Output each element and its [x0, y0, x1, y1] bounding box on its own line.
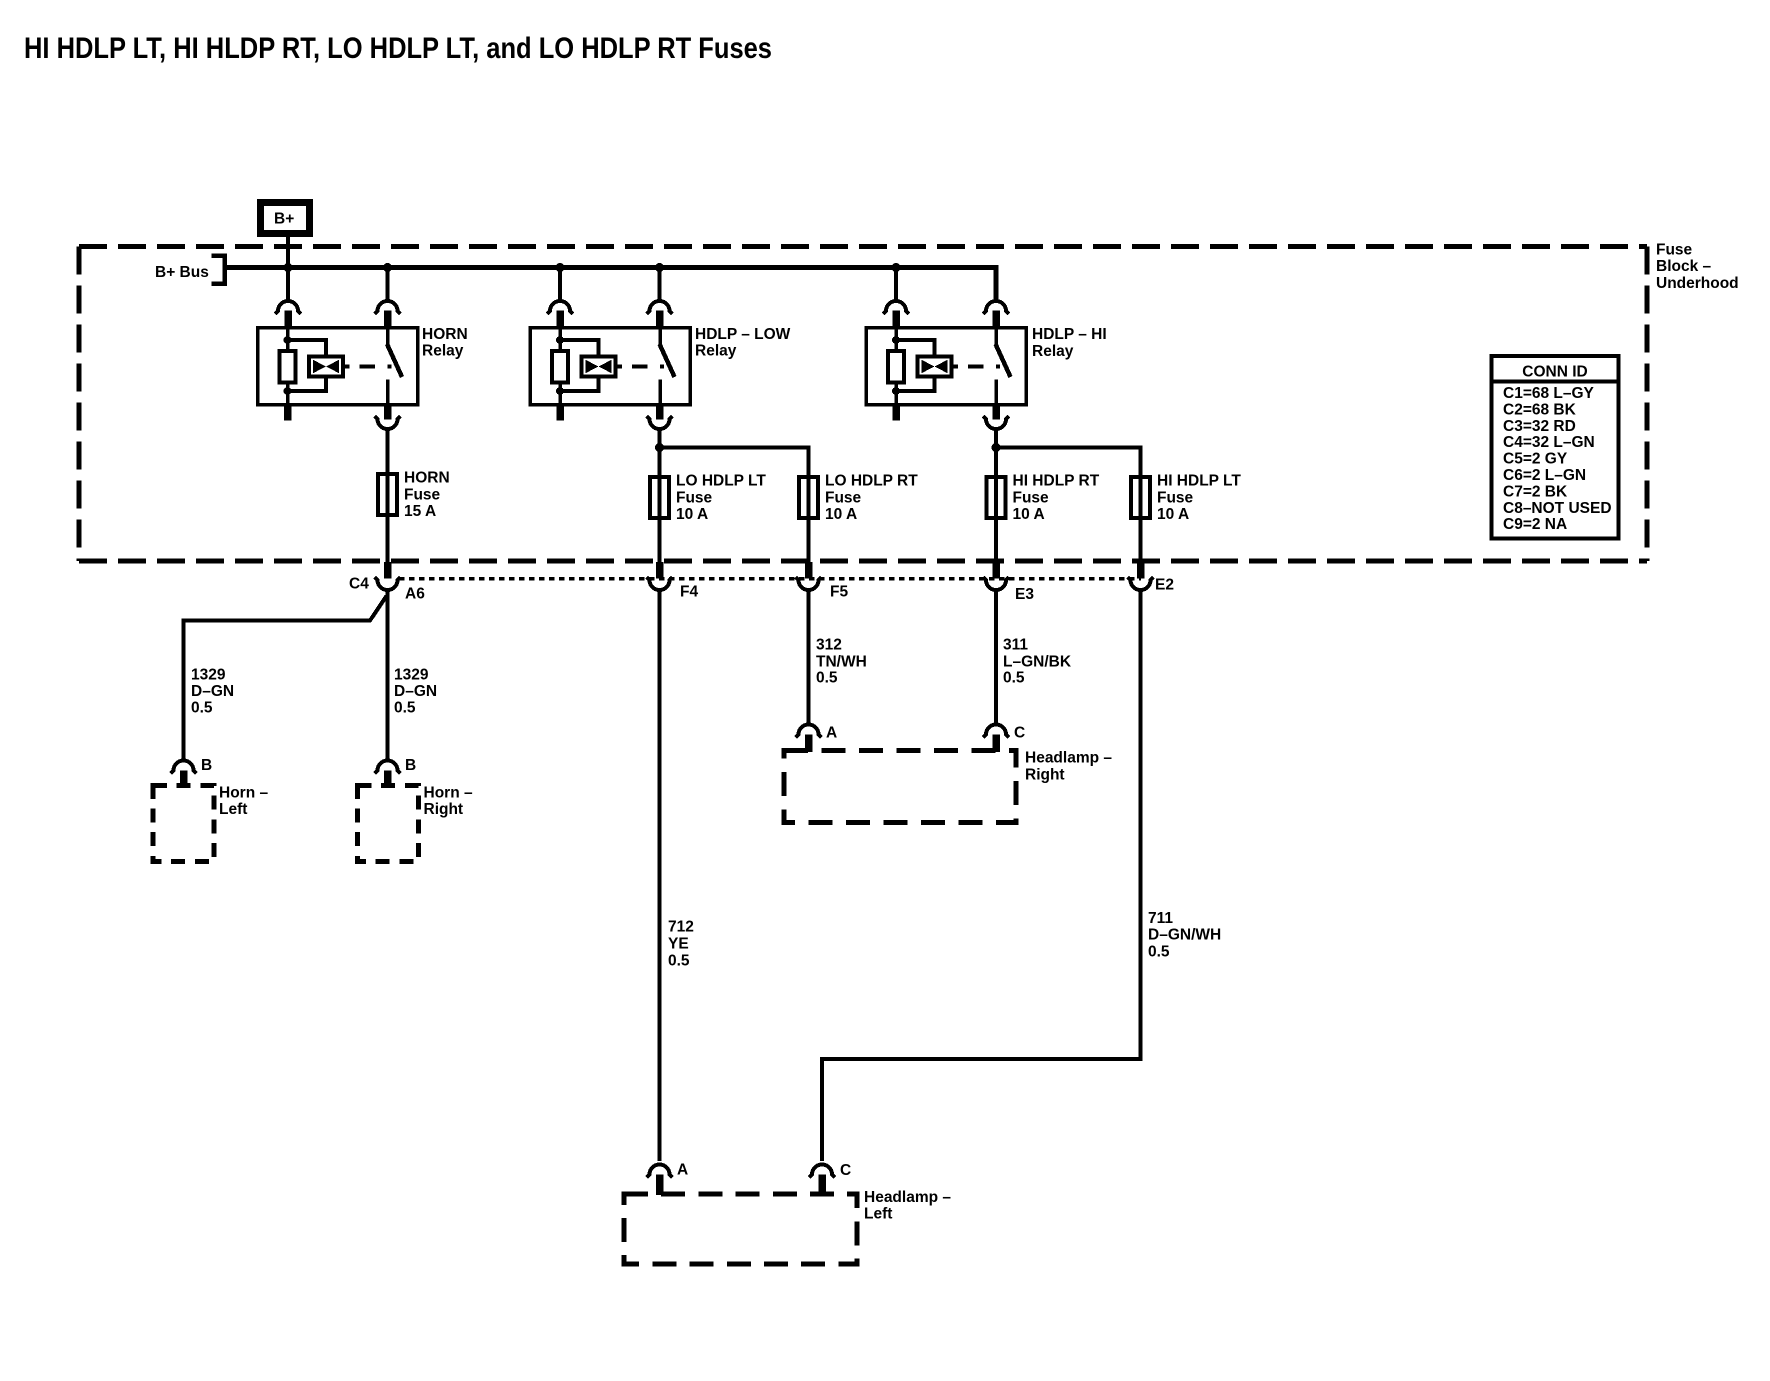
- svg-text:Headlamp –: Headlamp –: [864, 1189, 951, 1206]
- svg-text:Horn –: Horn –: [219, 785, 268, 802]
- svg-text:HORN: HORN: [404, 470, 450, 487]
- HDLP-LOW relay coil wire: [558, 326, 562, 352]
- fuse block underhood dashed border: [79, 244, 1647, 249]
- svg-text:C3=32 RD: C3=32 RD: [1503, 418, 1576, 435]
- svg-text:C1=68 L–GY: C1=68 L–GY: [1503, 385, 1595, 402]
- svg-text:Fuse: Fuse: [825, 489, 862, 506]
- HDLP-HI relay switch: [994, 327, 998, 346]
- svg-text:C5=2 GY: C5=2 GY: [1503, 451, 1568, 468]
- connector terminal arc x=387.5: [375, 301, 401, 314]
- svg-text:10 A: 10 A: [676, 506, 708, 523]
- wire branch to HI HDLP LT fuse: [996, 448, 1141, 477]
- wire E3 311 L-GN/BK to headlamp right C: [994, 591, 998, 725]
- HDLP-LOW relay junction dot coil bottom: [556, 387, 564, 395]
- junction bus x=560: [556, 263, 565, 272]
- svg-text:0.5: 0.5: [668, 953, 690, 970]
- wire C4 to horn right: [386, 591, 390, 761]
- HDLP-LOW relay junction dot coil top: [556, 336, 564, 344]
- svg-text:C4: C4: [349, 576, 369, 593]
- svg-text:0.5: 0.5: [816, 670, 838, 687]
- svg-text:B+ Bus: B+ Bus: [155, 264, 209, 281]
- svg-text:YE: YE: [668, 936, 689, 953]
- terminal pin x=288: [284, 311, 292, 330]
- connector cup F5: [796, 577, 822, 590]
- svg-text:Fuse: Fuse: [1013, 489, 1050, 506]
- HORN relay coil symbol (X box): [309, 357, 343, 377]
- HDLP-LOW relay coil loop wire: [560, 340, 599, 357]
- HDLP-HI relay junction dot coil top: [892, 336, 900, 344]
- wire fuse to block edge x=996: [994, 521, 998, 564]
- svg-text:Fuse: Fuse: [1157, 489, 1194, 506]
- svg-text:A: A: [826, 725, 837, 742]
- svg-text:C6=2 L–GN: C6=2 L–GN: [1503, 467, 1586, 484]
- junction hi branch: [992, 443, 1001, 452]
- svg-text:HI HDLP RT: HI HDLP RT: [1013, 473, 1100, 490]
- HDLP-LOW relay coil resistor: [552, 351, 568, 382]
- connector terminal arc x=288: [275, 301, 301, 314]
- junction bus x=387.5: [383, 263, 392, 272]
- svg-text:0.5: 0.5: [1148, 944, 1170, 961]
- HORN relay junction dot coil bottom: [284, 387, 292, 395]
- terminal pin x=896: [892, 311, 900, 330]
- terminal pin x=996: [992, 311, 1000, 330]
- svg-text:A: A: [677, 1162, 688, 1179]
- terminal pin through block edge x=996: [992, 562, 1000, 579]
- connector cup F4: [647, 577, 673, 590]
- connector terminal arc x=659.5: [647, 301, 673, 314]
- fuse HORN 15A symbol: [378, 474, 397, 515]
- HDLP-LOW relay switch: [658, 327, 662, 346]
- svg-text:10 A: 10 A: [825, 506, 857, 523]
- terminal pin x=560: [556, 311, 564, 330]
- svg-text:C8–NOT USED: C8–NOT USED: [1503, 500, 1612, 517]
- svg-text:0.5: 0.5: [191, 700, 213, 717]
- HORN relay junction dot coil top: [284, 336, 292, 344]
- Horn - Right dashed box: [358, 786, 419, 862]
- fuse LO HDLP LT 10A symbol: [650, 477, 669, 518]
- svg-text:B+: B+: [274, 211, 294, 228]
- B+ bus wire: [227, 268, 997, 302]
- svg-text:Block –: Block –: [1656, 258, 1712, 275]
- wire bus tap horn switch: [386, 268, 390, 302]
- svg-text:E3: E3: [1015, 586, 1034, 603]
- svg-text:B: B: [201, 757, 212, 774]
- wire E2 711 D-GN/WH to headlamp left C: [822, 591, 1141, 1161]
- connector cup A6: [375, 577, 401, 590]
- svg-text:CONN ID: CONN ID: [1522, 364, 1587, 381]
- Headlamp - Right dashed box: [784, 751, 1016, 823]
- svg-text:Left: Left: [864, 1206, 892, 1223]
- wire hi relay to HI HDLP RT fuse: [994, 430, 998, 476]
- svg-text:TN/WH: TN/WH: [816, 654, 867, 671]
- headlamp left connector C: [809, 1165, 835, 1178]
- headlamp left connector A: [647, 1165, 673, 1178]
- fuse HI HDLP LT 10A symbol: [1131, 477, 1150, 518]
- junction bus x=288: [284, 263, 293, 272]
- Headlamp - Left dashed box: [624, 1194, 857, 1264]
- junction bus x=896: [892, 263, 901, 272]
- svg-text:D–GN/WH: D–GN/WH: [1148, 927, 1221, 944]
- HDLP-HI relay coil wire: [894, 326, 898, 352]
- wire B+ to bus: [286, 235, 290, 301]
- HDLP-LOW relay coil symbol (X box): [582, 357, 616, 377]
- relay coil ground stub x=560: [556, 404, 564, 421]
- svg-text:B: B: [405, 757, 416, 774]
- Horn - Left dashed box: [153, 786, 214, 862]
- svg-text:Relay: Relay: [422, 343, 464, 360]
- svg-text:Horn –: Horn –: [424, 785, 473, 802]
- HDLP-HI relay coil loop wire: [896, 340, 935, 357]
- wire fuse to block edge x=1140.5: [1139, 521, 1143, 564]
- fuse HI HDLP RT 10A symbol: [987, 477, 1006, 518]
- connector terminal arc x=896: [883, 301, 909, 314]
- connector terminal arc x=560: [547, 301, 573, 314]
- headlamp right connector C: [983, 725, 1009, 738]
- connector interface dotted line: [399, 577, 1141, 581]
- svg-text:HI HDLP LT: HI HDLP LT: [1157, 473, 1241, 490]
- relay switch output pin x=387.5: [384, 404, 392, 420]
- fuse LO HDLP RT 10A symbol: [799, 477, 818, 518]
- B+ power symbol: [261, 203, 310, 234]
- HORN relay coil resistor: [280, 351, 296, 382]
- wire branch to LO HDLP RT fuse: [660, 448, 809, 477]
- svg-text:C: C: [1014, 725, 1025, 742]
- HDLP-LOW relay box: [530, 328, 690, 405]
- svg-text:1329: 1329: [394, 667, 429, 684]
- svg-text:712: 712: [668, 919, 694, 936]
- HDLP-HI relay junction dot coil bottom: [892, 387, 900, 395]
- wire bus tap low switch: [658, 268, 662, 302]
- svg-text:Relay: Relay: [695, 343, 737, 360]
- relay output connector cup x=659.5: [647, 416, 673, 429]
- HDLP-HI relay coil resistor: [888, 351, 904, 382]
- svg-text:Fuse: Fuse: [676, 489, 713, 506]
- wire horn relay to horn fuse: [386, 430, 390, 473]
- headlamp right connector A: [796, 725, 822, 738]
- svg-text:LO HDLP RT: LO HDLP RT: [825, 473, 918, 490]
- svg-text:Right: Right: [1025, 767, 1065, 784]
- HORN relay coil wire: [286, 326, 290, 352]
- terminal pin x=659.5: [656, 311, 664, 330]
- wire branch to horn left: [184, 596, 387, 761]
- terminal pin through block edge x=808.5: [805, 562, 813, 579]
- wire bus tap hi coil: [894, 268, 898, 302]
- wire fuse to block edge x=808.5: [807, 521, 811, 564]
- svg-text:711: 711: [1148, 910, 1173, 927]
- terminal pin through block edge x=387.5: [384, 562, 392, 579]
- svg-text:Headlamp –: Headlamp –: [1025, 750, 1112, 767]
- relay switch output pin x=996: [992, 404, 1000, 420]
- relay coil ground stub x=287.5: [284, 404, 292, 421]
- svg-text:F4: F4: [680, 584, 698, 601]
- svg-text:HORN: HORN: [422, 326, 468, 343]
- svg-text:Right: Right: [424, 801, 464, 818]
- svg-text:311: 311: [1003, 637, 1028, 654]
- relay coil ground stub x=896: [892, 404, 900, 421]
- HDLP-HI relay coil symbol (X box): [918, 357, 952, 377]
- relay output connector cup x=996: [983, 416, 1009, 429]
- HDLP-HI relay actuation dashed link: [952, 365, 959, 369]
- svg-text:F5: F5: [830, 584, 848, 601]
- svg-text:1329: 1329: [191, 667, 226, 684]
- HORN relay switch: [386, 327, 390, 346]
- horn Left connector arc pin B: [171, 761, 197, 774]
- HORN relay box: [258, 328, 418, 405]
- terminal pin through block edge x=1140.5: [1137, 562, 1145, 579]
- svg-text:0.5: 0.5: [394, 700, 416, 717]
- terminal pin x=387.5: [384, 311, 392, 330]
- svg-text:C: C: [840, 1162, 851, 1179]
- HORN relay actuation dashed link: [343, 365, 350, 369]
- svg-text:LO HDLP LT: LO HDLP LT: [676, 473, 766, 490]
- svg-text:HI HDLP LT, HI HLDP RT, LO HDL: HI HDLP LT, HI HLDP RT, LO HDLP LT, and …: [24, 32, 772, 65]
- svg-text:Left: Left: [219, 801, 247, 818]
- wire fuse to block edge x=659.5: [658, 521, 662, 564]
- svg-text:C4=32 L–GN: C4=32 L–GN: [1503, 434, 1595, 451]
- connector cup E2: [1128, 577, 1154, 590]
- svg-text:10 A: 10 A: [1157, 506, 1189, 523]
- CONN ID table: [1492, 356, 1619, 539]
- svg-text:C9=2 NA: C9=2 NA: [1503, 516, 1567, 533]
- svg-text:0.5: 0.5: [1003, 670, 1025, 687]
- junction low branch: [655, 443, 664, 452]
- wire bus tap low coil: [558, 268, 562, 302]
- svg-text:L–GN/BK: L–GN/BK: [1003, 654, 1072, 671]
- svg-text:15 A: 15 A: [404, 503, 436, 520]
- svg-text:HDLP – HI: HDLP – HI: [1032, 326, 1107, 343]
- node B+ Bus bracket: [212, 256, 225, 284]
- HDLP-LOW relay actuation dashed link: [616, 365, 623, 369]
- connector terminal arc x=996: [983, 301, 1009, 314]
- terminal pin through block edge x=659.5: [656, 562, 664, 579]
- svg-text:D–GN: D–GN: [191, 683, 234, 700]
- wire fuse to block edge x=387.5: [386, 518, 390, 564]
- svg-text:Fuse: Fuse: [404, 486, 441, 503]
- wire F5 312 TN/WH to headlamp right A: [807, 591, 811, 725]
- svg-text:10 A: 10 A: [1013, 506, 1045, 523]
- svg-text:Underhood: Underhood: [1656, 275, 1739, 292]
- wire F4 712 YE to headlamp left A: [658, 591, 662, 1161]
- svg-text:312: 312: [816, 637, 842, 654]
- svg-text:Relay: Relay: [1032, 343, 1074, 360]
- connector cup E3: [983, 577, 1009, 590]
- HDLP-HI relay box: [866, 328, 1026, 405]
- relay output connector cup x=387.5: [375, 416, 401, 429]
- wire low relay to LO HDLP LT fuse: [658, 430, 662, 476]
- junction bus x=659.5: [655, 263, 664, 272]
- svg-text:C7=2 BK: C7=2 BK: [1503, 483, 1568, 500]
- svg-text:HDLP – LOW: HDLP – LOW: [695, 326, 791, 343]
- relay switch output pin x=659.5: [656, 404, 664, 420]
- svg-text:D–GN: D–GN: [394, 683, 437, 700]
- horn Right connector arc pin B: [375, 761, 401, 774]
- HORN relay coil loop wire: [288, 340, 327, 357]
- svg-text:Fuse: Fuse: [1656, 242, 1693, 259]
- svg-text:A6: A6: [405, 586, 425, 603]
- svg-text:E2: E2: [1155, 577, 1174, 594]
- svg-text:C2=68 BK: C2=68 BK: [1503, 401, 1577, 418]
